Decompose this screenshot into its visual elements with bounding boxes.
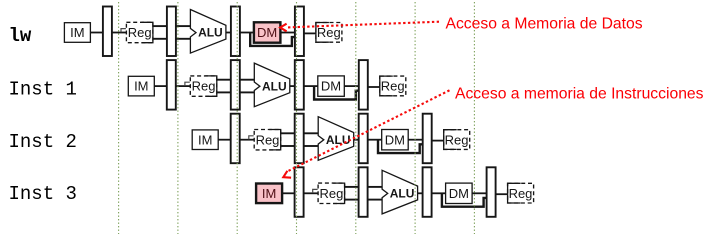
- svg-text:ALU: ALU: [326, 133, 351, 147]
- write port mark on Reg (row 4): [313, 189, 318, 193]
- pipeline register EX/MEM (row 4): [423, 167, 432, 217]
- svg-text:Inst 1: Inst 1: [9, 79, 77, 101]
- clock cycle separator line 6: [414, 2, 416, 234]
- pipeline register ID/EX (row 3): [295, 114, 304, 164]
- wire EX/MEM to DM (row 1): [240, 32, 254, 34]
- pipeline register MEM/WB (row 2): [359, 60, 368, 110]
- svg-text:ALU: ALU: [262, 79, 287, 93]
- ALU (row 1): [190, 10, 226, 54]
- wires Reg outputs to ID/EX register (row 3): [281, 132, 296, 134]
- pipeline register EX/MEM (row 1): [231, 7, 240, 57]
- wire IM to pipeline register IF/ID (row 3): [218, 139, 232, 141]
- ALU (row 2): [254, 63, 289, 107]
- write port mark on Reg (row 1): [121, 29, 126, 33]
- pipeline register MEM/WB (row 4): [487, 167, 496, 217]
- svg-text:Acceso a Memoria de Datos: Acceso a Memoria de Datos: [446, 15, 643, 32]
- svg-text:Reg: Reg: [317, 25, 341, 40]
- svg-text:Reg: Reg: [256, 132, 280, 147]
- register file Reg read stage (row 1): [126, 22, 152, 42]
- wire MEM/WB to Reg write-back (row 4): [496, 193, 509, 195]
- write port mark on Reg (row 2): [185, 82, 190, 86]
- svg-text:IM: IM: [198, 132, 212, 147]
- wire DM to MEM/WB register (row 1): [280, 32, 295, 34]
- svg-text:ALU: ALU: [198, 26, 223, 40]
- clock cycle separator line 7: [473, 2, 475, 234]
- svg-text:Inst 3: Inst 3: [9, 183, 77, 205]
- clock cycle separator line 4: [296, 2, 298, 234]
- bypass wire around DM (row 3): [378, 140, 423, 153]
- pipeline register MEM/WB (row 3): [423, 114, 432, 164]
- pipeline register IF/ID (row 1): [103, 7, 112, 57]
- svg-text:ALU: ALU: [390, 187, 415, 201]
- clock cycle separator line 2: [177, 2, 179, 234]
- wire ALU to EX/MEM register (row 3): [354, 139, 360, 141]
- pipeline register ID/EX (row 2): [231, 60, 240, 110]
- ALU (row 3): [318, 117, 354, 161]
- register file Reg read stage (row 4): [318, 183, 345, 203]
- svg-text:lw: lw: [9, 25, 32, 47]
- pipeline register ID/EX (row 1): [167, 7, 176, 57]
- register file Reg write-back stage (row 2): [380, 76, 406, 96]
- instruction memory IM (row 3): [192, 130, 218, 150]
- pipeline register EX/MEM (row 2): [295, 60, 304, 110]
- wire IF/ID to Reg (row 3): [240, 139, 256, 141]
- data memory DM (row 2): [318, 76, 345, 96]
- clock cycle separator line 3: [236, 2, 238, 234]
- wire DM to MEM/WB register (row 3): [408, 139, 423, 141]
- svg-text:Inst 2: Inst 2: [9, 131, 77, 153]
- pipeline register ID/EX (row 4): [359, 167, 368, 217]
- register file Reg read stage (row 2): [190, 76, 217, 96]
- wire MEM/WB to Reg write-back (row 2): [368, 86, 381, 88]
- wire IF/ID to Reg (row 2): [176, 85, 192, 87]
- wires ID/EX to ALU inputs (row 3): [304, 132, 320, 134]
- svg-text:IM: IM: [262, 186, 276, 201]
- wire IM to pipeline register IF/ID (row 1): [90, 32, 104, 34]
- red arrowhead at IM of Inst 3: [283, 171, 291, 178]
- wire IM to pipeline register IF/ID (row 2): [154, 85, 168, 87]
- svg-text:IM: IM: [134, 79, 148, 94]
- svg-text:Reg: Reg: [509, 186, 533, 201]
- register file Reg read stage (row 3): [254, 130, 281, 150]
- svg-text:IM: IM: [70, 25, 84, 40]
- wires ID/EX to ALU inputs (row 1): [176, 25, 192, 27]
- wire IF/ID to Reg (row 4): [304, 192, 320, 194]
- wire ALU to EX/MEM register (row 4): [418, 192, 424, 194]
- instruction memory IM (row 4): [256, 184, 282, 204]
- write port mark on Reg (row 3): [249, 136, 254, 140]
- svg-text:Reg: Reg: [319, 186, 343, 201]
- wire MEM/WB to Reg write-back (row 3): [432, 140, 445, 142]
- red arrowhead at DM of lw: [280, 24, 286, 32]
- clock cycle separator line 5: [355, 2, 357, 234]
- svg-text:Reg: Reg: [192, 79, 216, 94]
- data memory DM (row 3): [382, 130, 409, 150]
- pipeline register IF/ID (row 4): [295, 167, 304, 217]
- pipeline register IF/ID (row 3): [231, 114, 240, 164]
- wire IM to pipeline register IF/ID (row 4): [282, 192, 296, 194]
- svg-text:Acceso a memoria de Instruccio: Acceso a memoria de Instrucciones: [455, 85, 704, 102]
- svg-text:Reg: Reg: [128, 25, 152, 40]
- data memory DM (row 4): [446, 183, 473, 203]
- ALU (row 4): [382, 170, 418, 214]
- wire ALU to EX/MEM register (row 2): [290, 85, 296, 87]
- instruction memory IM (row 1): [64, 23, 90, 43]
- pipeline register MEM/WB (row 1): [295, 7, 304, 57]
- wires ID/EX to ALU inputs (row 2): [240, 79, 256, 81]
- wire MEM/WB to Reg write-back (row 1): [304, 32, 317, 34]
- svg-text:DM: DM: [385, 132, 405, 147]
- red dotted leader line to IM of Inst 3: [288, 90, 450, 171]
- svg-text:Reg: Reg: [445, 132, 469, 147]
- register file Reg write-back stage (row 4): [508, 183, 534, 203]
- register file Reg write-back stage (row 1): [316, 23, 342, 43]
- wire ALU to EX/MEM register (row 1): [226, 32, 232, 34]
- clock cycle separator line 1: [118, 2, 120, 234]
- wire EX/MEM to DM (row 2): [304, 85, 318, 87]
- data memory DM (row 1): [254, 22, 281, 42]
- register file Reg write-back stage (row 3): [444, 130, 470, 150]
- wires Reg outputs to ID/EX register (row 4): [345, 186, 360, 188]
- wires ID/EX to ALU inputs (row 4): [368, 186, 384, 188]
- bypass wire around DM (row 2): [314, 86, 359, 99]
- red dotted leader line to DM of lw: [288, 22, 439, 28]
- wires Reg outputs to ID/EX register (row 2): [217, 79, 232, 81]
- wire EX/MEM to DM (row 3): [368, 139, 382, 141]
- svg-text:DM: DM: [321, 79, 341, 94]
- wire DM to MEM/WB register (row 2): [344, 85, 359, 87]
- instruction memory IM (row 2): [128, 76, 154, 96]
- pipeline register EX/MEM (row 3): [359, 114, 368, 164]
- bypass wire around DM (row 1): [250, 33, 295, 46]
- bypass wire around DM (row 4): [442, 193, 487, 206]
- svg-text:Reg: Reg: [381, 79, 405, 94]
- wire DM to MEM/WB register (row 4): [472, 192, 487, 194]
- wire EX/MEM to DM (row 4): [432, 192, 446, 194]
- pipeline register IF/ID (row 2): [167, 60, 176, 110]
- svg-text:DM: DM: [449, 186, 469, 201]
- svg-text:DM: DM: [257, 25, 277, 40]
- wires Reg outputs to ID/EX register (row 1): [153, 25, 168, 27]
- wire IF/ID to Reg (row 1): [112, 32, 128, 34]
